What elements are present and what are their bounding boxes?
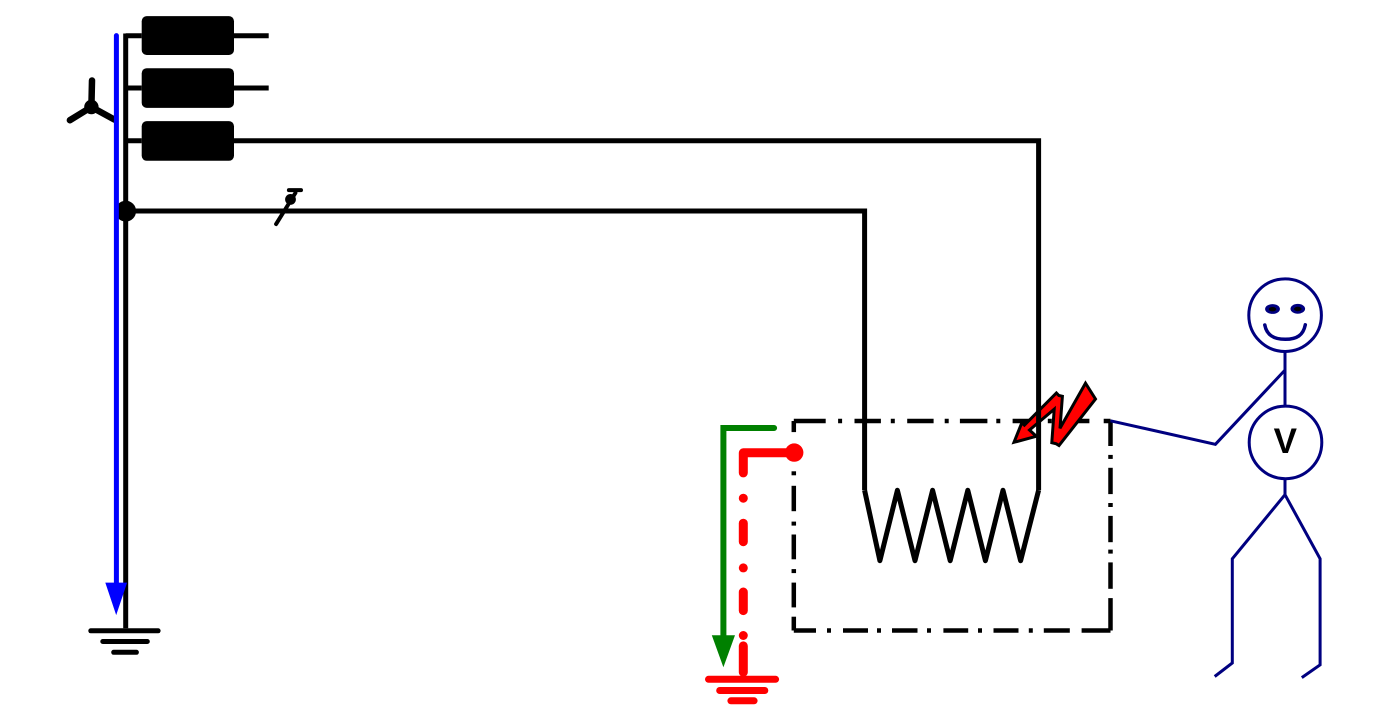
- switch contact dot: [285, 194, 296, 205]
- red wire dash-dot dot 3: [739, 631, 748, 640]
- ground (black earth symbol bottom left): [91, 631, 158, 653]
- switch top bar: [289, 188, 301, 192]
- wind turbine generator symbol: [70, 81, 115, 121]
- switch (disconnector) blade: [276, 193, 295, 224]
- wire stub fuse F1: [126, 33, 142, 38]
- green arrowhead: [712, 635, 735, 667]
- person neck: [1284, 352, 1287, 407]
- fuse F3: [142, 121, 234, 161]
- svg-text:V: V: [1274, 422, 1298, 461]
- wire from junction through switch to heater left lead: [126, 211, 865, 490]
- heater element zigzag: [865, 490, 1039, 560]
- person eye right: [1291, 304, 1306, 314]
- fuse F2: [142, 68, 234, 108]
- wire F3 to heater right lead: [234, 141, 1039, 491]
- voltmeter circle: [1249, 406, 1322, 479]
- person right leg: [1285, 495, 1320, 678]
- red earth symbol: [709, 679, 776, 701]
- wire stub fuse F3: [126, 138, 142, 143]
- person smile: [1265, 325, 1306, 340]
- red wire dash-dot dot 1: [739, 494, 748, 503]
- red wire dash-dot dot 2: [739, 563, 748, 572]
- person head: [1249, 279, 1322, 352]
- person arm touching enclosure: [1111, 371, 1285, 445]
- red lightning fault arrow: [1014, 383, 1096, 445]
- red node on enclosure: [785, 443, 803, 461]
- person left leg: [1215, 495, 1285, 677]
- wire F1 output: [234, 33, 269, 38]
- green protective-earth wire: [723, 428, 774, 635]
- busbar (black vertical line): [123, 34, 128, 629]
- blue neutral/current line: [114, 36, 119, 583]
- wire F2 output: [234, 86, 269, 91]
- enclosure dash-dot box left edge: [792, 421, 797, 631]
- person eye left: [1265, 304, 1280, 314]
- wire stub fuse F2: [126, 86, 142, 91]
- red fault-current wire solid part: [743, 453, 794, 473]
- red wire dash 2: [739, 592, 748, 611]
- red wire dash 1: [739, 523, 748, 542]
- person torso: [1284, 479, 1287, 495]
- red wire dash 3: [739, 646, 748, 672]
- enclosure dash-dot box top edge: [794, 419, 1111, 424]
- enclosure dash-dot box right edge: [1108, 421, 1113, 631]
- enclosure dash-dot box bottom edge: [794, 628, 1111, 633]
- junction node on busbar: [115, 201, 136, 222]
- fuse F1: [142, 16, 234, 55]
- blue arrowhead: [105, 583, 127, 616]
